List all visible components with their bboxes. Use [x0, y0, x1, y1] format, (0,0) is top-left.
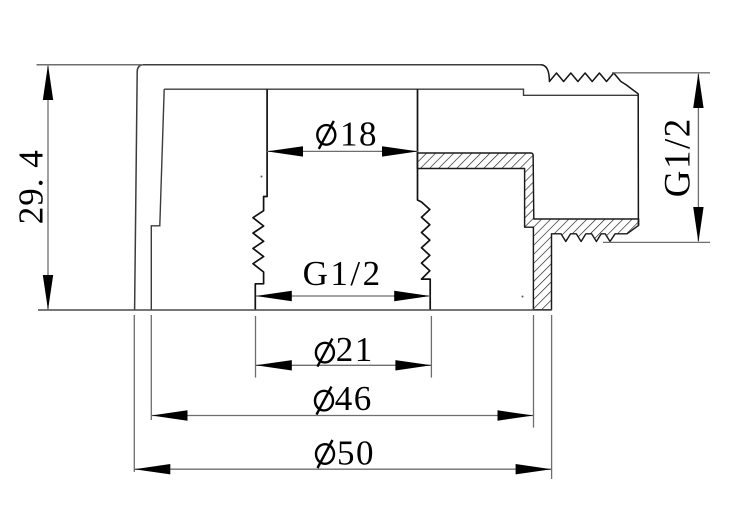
dimension 29.4 vertical [12, 65, 54, 310]
arrowhead G1/2 male down [693, 207, 703, 242]
dimension line phi50 [134, 468, 551, 470]
dimension line phi46 [152, 415, 534, 417]
arrowhead phi21 left [256, 360, 292, 370]
extension line phi21 right [430, 316, 432, 378]
dimension line G1/2 male [697, 74, 699, 241]
svg-text:50: 50 [337, 434, 375, 473]
svg-text:18: 18 [340, 115, 378, 154]
arrowhead G1/2 internal left [256, 291, 292, 301]
section cut hatched wall (side-port floor, skirt wall, male thread bottom) [417, 153, 638, 310]
phi symbol of phi21 [316, 343, 334, 363]
dimension phi46 [151, 315, 533, 428]
internal female thread G1/2 left profile with phi18 bore wall [253, 89, 267, 310]
extension line phi50 left [133, 315, 135, 472]
svg-text:29. 4: 29. 4 [12, 149, 51, 224]
svg-text:21: 21 [336, 330, 374, 369]
dimension phi18 [267, 115, 418, 157]
svg-text:G1/2: G1/2 [658, 117, 699, 197]
arrowhead G1/2 male up [693, 73, 703, 108]
svg-text:G1/2: G1/2 [303, 254, 383, 293]
arrowhead G1/2 internal right [394, 291, 430, 301]
inner left wall with counterbore step (phi46 skirt) [151, 89, 164, 310]
extension line phi46 left [150, 315, 152, 420]
arrowhead 29.4 down [43, 275, 53, 310]
male thread G1/2 top profile and end face of side port [541, 65, 638, 226]
body top face line [143, 64, 541, 66]
phi symbol of phi50 [316, 444, 334, 464]
dimension line phi18 [267, 150, 418, 152]
extension line G1/2 male top [612, 72, 710, 74]
phi symbol of phi18 [317, 125, 335, 145]
dimension line 29.4 [47, 66, 49, 309]
dimension phi21 [256, 316, 432, 378]
phi symbol of phi46 [315, 391, 333, 411]
arrowhead phi46 left [152, 410, 188, 420]
svg-text:46: 46 [335, 379, 373, 418]
dimension G1/2 male thread (right side, vertical) [603, 73, 710, 243]
arrowhead phi18 left [267, 146, 303, 156]
inner cavity ceiling and side-port bore top edge [164, 89, 638, 95]
bottom face baseline (also extension line for 29.4) [38, 309, 552, 311]
dimension line phi21 [256, 364, 432, 366]
extension line G1/2 male bottom [603, 241, 710, 243]
scan speck near cavity wall [522, 296, 524, 298]
internal female thread G1/2 right profile with phi18 bore wall [418, 89, 431, 310]
extension line phi50 right [551, 315, 553, 479]
dimension line G1/2 internal [256, 295, 430, 297]
dimension G1/2 internal thread [256, 254, 430, 301]
extension line above left wall for 29.4 dimension [37, 64, 144, 66]
extension line phi21 left [255, 316, 257, 378]
arrowhead phi50 right [516, 464, 552, 474]
extension line phi46 right [533, 315, 535, 428]
arrowhead 29.4 up [43, 65, 53, 100]
body left outer wall with rounded top corner [135, 65, 143, 310]
arrowhead phi18 right [382, 146, 418, 156]
arrowhead phi46 right [498, 410, 534, 420]
dimension phi50 [134, 315, 551, 479]
arrowhead phi21 right [395, 360, 431, 370]
scan speck near phi18 bore wall [261, 176, 263, 178]
arrowhead phi50 left [134, 464, 170, 474]
